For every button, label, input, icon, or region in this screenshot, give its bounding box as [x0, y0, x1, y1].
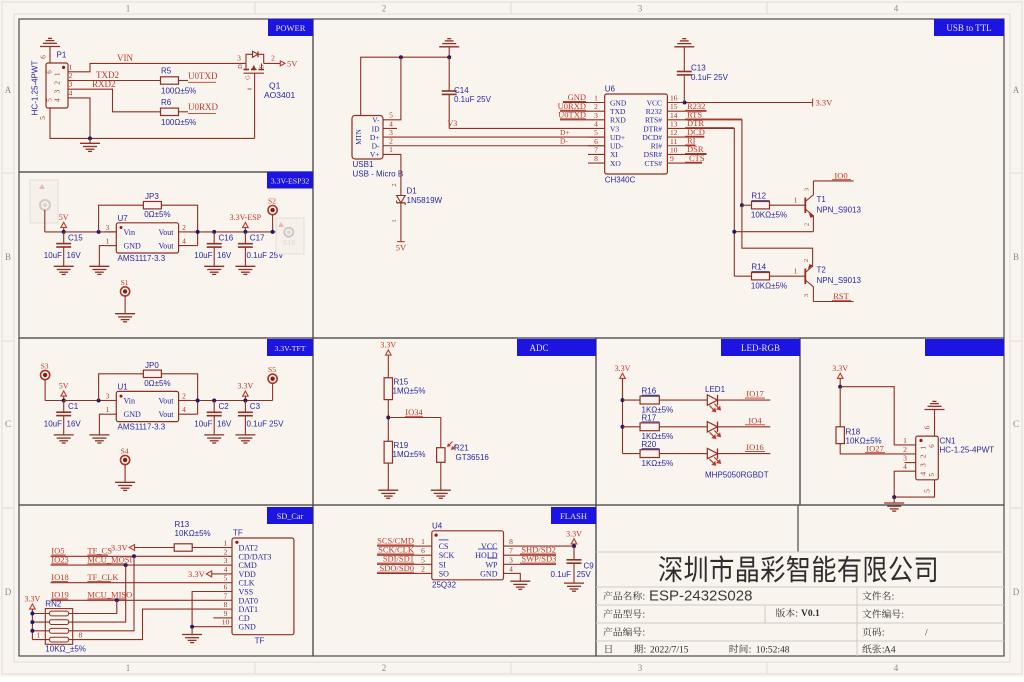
svg-text:AMS1117-3.3: AMS1117-3.3: [118, 254, 166, 263]
svg-text:1MΩ±5%: 1MΩ±5%: [393, 450, 426, 459]
svg-text:3.3V: 3.3V: [238, 382, 254, 391]
svg-text:R232: R232: [646, 107, 663, 116]
ground (R19): [378, 489, 398, 491]
svg-text:3: 3: [509, 555, 513, 564]
capacitor C15: [63, 232, 65, 244]
svg-text:IO4: IO4: [748, 415, 762, 425]
svg-text:11: 11: [670, 137, 677, 146]
svg-text:2: 2: [382, 4, 387, 14]
wire MCU_MISO (pin7): [51, 599, 223, 601]
svg-text:9: 9: [224, 609, 228, 618]
svg-text:USB to TTL: USB to TTL: [946, 23, 991, 33]
svg-text:CD: CD: [239, 614, 250, 623]
svg-text:3.3V: 3.3V: [816, 98, 834, 108]
svg-text:NPN_S9013: NPN_S9013: [817, 276, 862, 285]
svg-text:3.3V: 3.3V: [566, 529, 582, 538]
svg-text:25V: 25V: [577, 570, 592, 579]
wire R14 to T2: [770, 275, 806, 277]
svg-text:7: 7: [509, 546, 513, 555]
capacitor C3: [244, 401, 246, 413]
wire R17 to LED: [659, 426, 707, 428]
svg-text:3: 3: [106, 223, 110, 232]
svg-text:16: 16: [670, 94, 678, 103]
capacitor C9: [573, 546, 575, 560]
svg-text:USB1: USB1: [353, 160, 374, 169]
svg-text:U4: U4: [432, 521, 443, 530]
transistor Q1 (PMOS): [237, 51, 266, 138]
power flag 5V (TFT): [61, 391, 67, 396]
svg-text:10: 10: [222, 618, 230, 627]
wire rail to U1 Vin: [64, 400, 117, 402]
svg-text:5V: 5V: [59, 213, 69, 222]
junction: [243, 230, 247, 234]
svg-text:D1: D1: [407, 187, 418, 196]
wire rail to R20: [623, 453, 641, 455]
ground (TF): [191, 627, 193, 635]
svg-text:10KΩ±5%: 10KΩ±5%: [751, 211, 787, 220]
svg-text:DAT2: DAT2: [239, 544, 259, 553]
svg-text:LED-RGB: LED-RGB: [741, 343, 780, 353]
section header 3.3V-ESP32: [267, 172, 313, 189]
LED1 element 1: [707, 395, 721, 413]
wire P1 pin1 to VIN: [74, 63, 246, 71]
svg-text:2: 2: [391, 183, 398, 186]
photoresistor R21: [437, 448, 445, 463]
wire S1 to ground: [124, 296, 126, 314]
wire U1 GND to ground: [99, 414, 104, 435]
svg-text:1: 1: [106, 405, 110, 414]
svg-text:10uF: 10uF: [44, 251, 62, 260]
svg-text:MHP5050RGBDT: MHP5050RGBDT: [705, 471, 769, 480]
wire JP3 branch: [99, 205, 144, 232]
ground (P1 top): [40, 46, 60, 48]
svg-text:MCU_MISO: MCU_MISO: [87, 590, 132, 600]
svg-text:C13: C13: [691, 64, 706, 73]
svg-text:Vout: Vout: [159, 410, 175, 419]
svg-text:TF_CLK: TF_CLK: [87, 572, 119, 582]
svg-text:3.3V: 3.3V: [188, 569, 206, 579]
svg-text:A4: A4: [884, 646, 896, 656]
junction: [30, 620, 34, 624]
svg-text:S3: S3: [41, 362, 49, 371]
wire R13 to TF pin1: [192, 547, 232, 549]
junction: [212, 399, 216, 403]
ground (U1): [89, 434, 109, 436]
diode D1: [397, 196, 406, 206]
svg-text:GND: GND: [124, 410, 142, 419]
svg-text:2022/7/15: 2022/7/15: [650, 646, 689, 656]
capacitor C17: [244, 232, 246, 244]
svg-text:IO23: IO23: [51, 555, 68, 565]
svg-text:B: B: [5, 252, 11, 262]
svg-text:16V: 16V: [67, 420, 82, 429]
wire SL2 to rail: [44, 210, 46, 232]
svg-text:0Ω±5%: 0Ω±5%: [144, 210, 170, 219]
svg-text:IO17: IO17: [746, 389, 763, 399]
wire R21 to ground: [440, 462, 442, 490]
svg-text:RN2: RN2: [45, 600, 62, 609]
svg-text:1N5819W: 1N5819W: [407, 196, 443, 205]
power flag 3.3V (CN1): [837, 373, 843, 378]
svg-text:5V: 5V: [396, 243, 407, 253]
wire RTS down: [685, 120, 742, 205]
wire VSS/GND (pins 6,10): [192, 592, 222, 627]
ground (R21): [431, 489, 451, 491]
junction: [740, 203, 744, 207]
junction: [621, 425, 625, 429]
svg-text:R16: R16: [642, 387, 657, 396]
svg-text:3: 3: [638, 663, 643, 673]
svg-text:IO16: IO16: [746, 442, 763, 452]
wire Q1 to 5V flag: [264, 62, 281, 64]
wire LED to IO16: [718, 453, 771, 455]
wire Vout rail (TFT): [190, 400, 273, 402]
wire R18 to CN1 pin2: [840, 444, 916, 454]
svg-text:5: 5: [928, 472, 936, 476]
label 页码: [862, 627, 883, 636]
svg-text:TXD: TXD: [610, 107, 626, 116]
svg-text:4: 4: [509, 564, 513, 573]
capacitor C13: [677, 71, 692, 73]
svg-text:2: 2: [271, 54, 275, 63]
svg-text:IO19: IO19: [51, 590, 68, 600]
svg-text:U6: U6: [605, 85, 616, 94]
label 文件名: [862, 591, 893, 600]
wire T1 emitter to DTR line: [734, 231, 813, 233]
svg-text:IO27: IO27: [866, 443, 883, 453]
svg-text:R17: R17: [642, 413, 657, 422]
wire V+ down to D1: [383, 154, 401, 195]
svg-text:3: 3: [53, 89, 62, 93]
resistor R13: [174, 544, 192, 551]
svg-text:C2: C2: [219, 402, 230, 411]
resistor R5: [161, 77, 179, 84]
svg-text:13: 13: [670, 119, 678, 128]
svg-text:5: 5: [224, 574, 228, 583]
connector USB1: [352, 111, 397, 160]
wire D+ to chip: [383, 136, 605, 138]
svg-text:DTR#: DTR#: [643, 124, 662, 133]
R21 light arrows: [448, 442, 453, 447]
wire S5 to rail: [272, 383, 274, 400]
wire DAT1 (pin8): [69, 609, 223, 640]
svg-text:4: 4: [894, 4, 899, 14]
transistor T1: [804, 181, 814, 232]
wire IO34 branch: [388, 418, 441, 448]
IC U4 25Q32: [416, 531, 520, 580]
svg-text:G: G: [245, 75, 252, 80]
section header POWER: [268, 19, 313, 36]
svg-text:R13: R13: [175, 520, 190, 529]
svg-text:CTS#: CTS#: [644, 159, 662, 168]
wire DTR down: [685, 128, 735, 276]
power flag 3.3V-ESP: [243, 222, 249, 227]
svg-text:6: 6: [39, 55, 48, 59]
resistor R20: [640, 450, 659, 458]
svg-text:POWER: POWER: [276, 23, 306, 33]
wire R5 to U0TXD: [179, 80, 189, 82]
wire VCC to 3.3V: [685, 102, 813, 104]
svg-text:3.3V-ESP: 3.3V-ESP: [230, 213, 262, 222]
wire LED rail: [622, 378, 624, 453]
svg-text:3: 3: [106, 392, 110, 401]
power flag 5V down: [397, 241, 405, 243]
junction: [212, 230, 216, 234]
svg-text:1KΩ±5%: 1KΩ±5%: [642, 459, 674, 468]
svg-text:1: 1: [53, 72, 62, 76]
svg-text:S16: S16: [283, 240, 296, 247]
svg-text:C: C: [1013, 419, 1019, 429]
ghost pad S16: [276, 218, 304, 254]
svg-text:5V: 5V: [59, 382, 69, 391]
svg-text:Vin: Vin: [124, 397, 136, 406]
ground (CN1 top): [925, 409, 945, 411]
svg-text:14: 14: [670, 111, 678, 120]
stub CD (pin9): [213, 617, 222, 619]
svg-text:2: 2: [594, 102, 598, 111]
svg-text:7: 7: [594, 145, 598, 154]
svg-text:4: 4: [903, 462, 907, 471]
svg-text:DSR#: DSR#: [644, 150, 663, 159]
svg-text:GND: GND: [239, 623, 257, 632]
svg-text:RXD2: RXD2: [92, 79, 116, 89]
junction: [838, 385, 842, 389]
svg-text:ADC: ADC: [529, 343, 548, 353]
svg-text:LED1: LED1: [705, 385, 726, 394]
pad S3: [41, 362, 50, 380]
wire RN2 rail: [31, 609, 33, 640]
svg-text:1: 1: [126, 663, 131, 673]
junction: [97, 230, 101, 234]
svg-text:100Ω±5%: 100Ω±5%: [161, 87, 196, 96]
svg-text:5: 5: [389, 111, 393, 120]
svg-text:P1: P1: [57, 51, 67, 60]
svg-text:3.3V: 3.3V: [615, 364, 631, 373]
svg-text:S1: S1: [121, 278, 129, 287]
regulator U1: [105, 391, 198, 421]
pad S2: [268, 197, 277, 215]
wire LED to IO17: [718, 399, 771, 401]
svg-text:2: 2: [803, 259, 810, 262]
resistor network RN2: [32, 609, 72, 645]
ground (P1 bottom rail): [89, 138, 91, 143]
junction: [621, 398, 625, 402]
svg-text:U1: U1: [118, 383, 129, 392]
svg-text:D: D: [237, 64, 244, 69]
ground (C15): [54, 265, 74, 267]
svg-text:1: 1: [69, 62, 73, 71]
svg-text:4: 4: [69, 88, 73, 97]
svg-text:R21: R21: [454, 444, 469, 453]
ground (U7): [89, 265, 109, 267]
connector CN1: [903, 436, 938, 480]
svg-text:Vin: Vin: [124, 228, 136, 237]
resistor R18: [836, 427, 844, 444]
svg-text:2: 2: [53, 81, 62, 85]
junction: [386, 416, 390, 420]
svg-text:0Ω±5%: 0Ω±5%: [144, 379, 170, 388]
svg-text:GND: GND: [610, 98, 627, 107]
wire rail to R16: [623, 399, 641, 401]
capacitor C14: [448, 57, 450, 91]
svg-text:GND: GND: [124, 242, 142, 251]
svg-text:B: B: [1013, 252, 1019, 262]
svg-text:AO3401: AO3401: [264, 90, 295, 100]
svg-text:1: 1: [391, 219, 398, 222]
junction: [447, 55, 451, 59]
svg-text:4: 4: [919, 472, 928, 476]
wire T2 to RST: [813, 301, 853, 303]
resistor R12: [752, 202, 770, 209]
svg-text:2: 2: [919, 454, 928, 458]
pad S5: [268, 365, 277, 383]
svg-text:3: 3: [919, 463, 928, 467]
svg-text:IO0: IO0: [834, 170, 847, 180]
junction: [892, 495, 896, 499]
junction: [97, 399, 101, 403]
wire MISO pullup: [69, 600, 117, 613]
svg-text:3: 3: [224, 556, 228, 565]
wire JP0 to vert: [161, 374, 198, 414]
svg-text:D-: D-: [560, 137, 568, 146]
svg-text:0.1uF 25V: 0.1uF 25V: [247, 420, 285, 429]
wire P1 mount5 to gate rail: [50, 108, 255, 138]
svg-text:3.3V-TFT: 3.3V-TFT: [274, 344, 305, 353]
svg-text:7: 7: [224, 591, 228, 600]
junction: [271, 230, 275, 234]
capacitor C1: [63, 401, 65, 413]
wire T1 collector to IO0: [813, 180, 853, 182]
wire JP0 branch: [99, 374, 144, 401]
wire U7 GND to ground: [99, 246, 104, 267]
label 版本: [776, 608, 798, 617]
svg-text:DAT1: DAT1: [239, 605, 259, 614]
wire S2 to rail: [272, 215, 274, 232]
svg-text:3.3V: 3.3V: [832, 364, 848, 373]
svg-text:U0RXD: U0RXD: [188, 102, 219, 112]
ground (C1): [54, 434, 74, 436]
wire JP3 to vert: [161, 205, 198, 245]
resistor R16: [640, 396, 659, 404]
svg-text:VCC: VCC: [481, 542, 497, 551]
LED1 element 2: [707, 422, 721, 440]
svg-text:MTN: MTN: [355, 129, 363, 145]
wire RTS to R12: [742, 204, 752, 206]
svg-text:A: A: [1013, 85, 1020, 95]
capacitor C2: [213, 401, 215, 413]
svg-text:S: S: [259, 64, 266, 68]
wire D1 to 5V flag: [400, 203, 402, 242]
svg-text:16V: 16V: [217, 420, 232, 429]
section header SD_Car: [267, 507, 313, 524]
wire TF_CLK (pin5): [51, 582, 223, 584]
wire P1 pin3 RXD2: [74, 89, 161, 112]
svg-text:HC-1.25-4PWT: HC-1.25-4PWT: [31, 61, 40, 116]
svg-text:CS: CS: [439, 542, 449, 551]
svg-text:8: 8: [509, 537, 513, 546]
svg-text:10:52:48: 10:52:48: [756, 646, 790, 656]
title block grid: [596, 552, 1004, 656]
ground (C17): [235, 265, 255, 267]
resistor R17: [640, 423, 659, 431]
svg-text:NPN_S9013: NPN_S9013: [817, 206, 862, 215]
svg-text:3: 3: [69, 80, 73, 89]
section header ADC: [517, 339, 596, 356]
svg-text:16V: 16V: [67, 251, 82, 260]
section header LED-RGB: [721, 339, 800, 356]
wire DTR to R14: [734, 275, 751, 277]
wire TF_CS (pin2): [51, 555, 223, 557]
capacitor C16: [213, 232, 215, 244]
svg-text:3: 3: [594, 111, 598, 120]
connector TF: [222, 538, 294, 635]
resistor JP3: [143, 202, 161, 209]
svg-text:R15: R15: [394, 378, 409, 387]
svg-text:R12: R12: [751, 192, 766, 201]
svg-text:6: 6: [928, 444, 936, 448]
svg-text:XI: XI: [610, 150, 618, 159]
junction: [30, 629, 34, 633]
ground (S4): [115, 481, 135, 483]
junction: [683, 101, 687, 105]
wire LED to IO4: [718, 426, 771, 428]
svg-text:1MΩ±5%: 1MΩ±5%: [393, 387, 426, 396]
svg-text:WP: WP: [486, 560, 499, 569]
svg-text:C14: C14: [454, 86, 469, 95]
ground (S1): [115, 313, 135, 315]
wire to R18: [839, 387, 841, 427]
svg-text:VIN: VIN: [117, 53, 133, 63]
svg-text:GND: GND: [480, 569, 498, 578]
wire R19 to ground: [387, 463, 389, 490]
label 日期: [606, 645, 612, 653]
svg-text:UD+: UD+: [610, 133, 625, 142]
svg-text:2: 2: [224, 547, 228, 556]
svg-text:D: D: [5, 587, 12, 597]
svg-text:HOLD: HOLD: [475, 551, 497, 560]
svg-text:XO: XO: [610, 159, 621, 168]
svg-text:/: /: [925, 629, 928, 639]
svg-text:CD/DAT3: CD/DAT3: [239, 552, 272, 561]
svg-text:10uF: 10uF: [194, 251, 212, 260]
svg-text:4: 4: [594, 119, 598, 128]
svg-text:DAT0: DAT0: [239, 596, 259, 605]
wire CN1 pin5 to ground: [894, 480, 934, 497]
svg-text:1: 1: [594, 94, 598, 103]
power flag 3.3V (U4): [571, 539, 577, 544]
wire R6 to U0RXD: [179, 111, 189, 113]
section header USB to TTL: [934, 19, 1004, 36]
svg-text:CN1: CN1: [940, 437, 957, 446]
svg-text:R19: R19: [394, 441, 409, 450]
svg-text:3: 3: [804, 188, 811, 191]
ground (USB top): [439, 46, 459, 48]
svg-text:5: 5: [38, 116, 47, 120]
svg-text:2: 2: [182, 223, 186, 232]
ground (C9): [564, 582, 584, 584]
svg-text:D+: D+: [560, 128, 570, 137]
svg-text:1: 1: [126, 4, 131, 14]
svg-text:3: 3: [237, 54, 241, 63]
ground (C16): [204, 265, 224, 267]
svg-text:2: 2: [903, 445, 907, 454]
svg-text:VCC: VCC: [647, 98, 662, 107]
svg-text:100Ω±5%: 100Ω±5%: [161, 118, 196, 127]
svg-text:SD_Car: SD_Car: [277, 512, 304, 521]
pad S1: [121, 278, 130, 296]
svg-text:V3: V3: [448, 119, 458, 128]
svg-text:U7: U7: [118, 214, 129, 223]
